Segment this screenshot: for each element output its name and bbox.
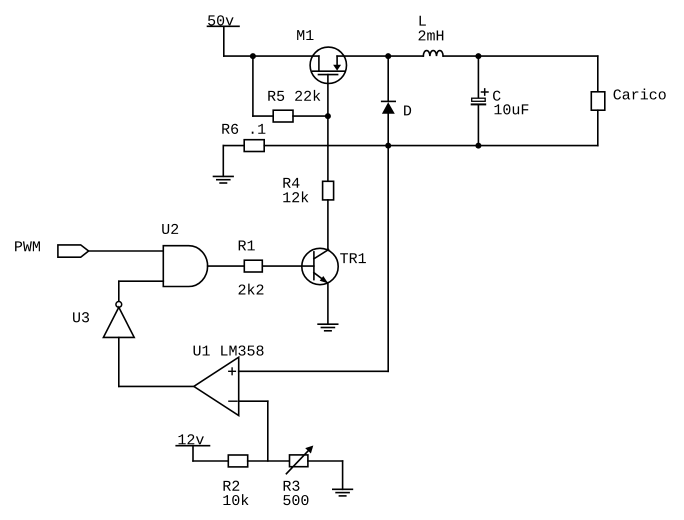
transistor M1 (MOSFET) (310, 47, 346, 83)
label 12v (178, 434, 203, 444)
node dot diode bottom (385, 143, 391, 149)
op-amp U1 (194, 357, 239, 415)
supply 12v symbol (176, 446, 209, 461)
capacitor C (472, 56, 488, 146)
label R6 .1 (222, 124, 265, 134)
supply 50v symbol (208, 26, 240, 56)
wire R4 to TR1 collector (327, 200, 329, 250)
wire bottom bus (R6 to Carico) (264, 145, 598, 147)
wire diode bottom / feedback down (387, 114, 389, 372)
node dot cap bottom (475, 143, 481, 149)
wire opamp plus input to feedback (239, 370, 389, 372)
op-amp plus marking (229, 368, 236, 375)
wire top bus left (50v to M1) (224, 55, 319, 57)
diode D (382, 56, 396, 114)
resistor R3 (variable) (286, 446, 313, 474)
label Carico (614, 89, 666, 100)
gate U3 (inverter) (103, 302, 134, 338)
wire R5 to gate node (293, 115, 328, 117)
wire R2 to R3 (248, 460, 290, 462)
wire M1 gate down through R5 node to R4 (327, 75, 329, 182)
label L 2mH (420, 16, 426, 26)
label R5 22k (268, 90, 320, 101)
resistor R5 (273, 110, 293, 122)
label PWM (15, 241, 40, 251)
node dot 50v/R5 branch (250, 53, 256, 59)
node dot diode top (385, 53, 391, 59)
wire R1 to TR1 base (262, 265, 314, 267)
label U3 (73, 312, 89, 322)
label U1 LM358 (194, 345, 264, 355)
node dot gate/R5 (325, 113, 331, 119)
wire TR1 emitter to ground (327, 283, 329, 324)
wire PWM to U2 (89, 250, 164, 252)
wire opamp minus input down (239, 401, 268, 461)
wire top bus M1 to inductor (337, 55, 423, 57)
wire R6 left to ground (223, 146, 244, 177)
label 50v (208, 15, 234, 25)
label R4 12k (283, 178, 299, 188)
ground under R3 (333, 489, 353, 496)
label TR1 (340, 253, 366, 263)
wire 12v to R2 (193, 460, 228, 462)
ground under TR1 (318, 324, 338, 331)
wire U3 to opamp output (119, 337, 194, 386)
label R2 10k (223, 481, 239, 491)
label R3 500 (284, 481, 300, 491)
input flag PWM (58, 245, 89, 257)
wire U2 out to R1 (208, 265, 245, 267)
label M1 (297, 30, 313, 40)
node dot cap top (475, 53, 481, 59)
wire R3 to ground (308, 461, 343, 489)
label C 10uF (493, 91, 501, 101)
resistor Carico (load) (591, 56, 605, 146)
resistor R1 (244, 260, 262, 272)
gate U2 (AND) (163, 246, 207, 287)
label R1 2k2 (239, 241, 255, 251)
transistor TR1 (302, 248, 338, 284)
resistor R4 (323, 181, 334, 200)
wire 50v branch down to R5 (253, 56, 273, 116)
wire top bus inductor to Carico (443, 55, 598, 57)
op-amp minus marking (229, 400, 237, 402)
wire U2 lower input (119, 281, 164, 301)
label U2 (162, 224, 178, 234)
ground under R6 (214, 176, 234, 183)
resistor R6 (244, 140, 264, 152)
inductor L (423, 51, 443, 57)
resistor R2 (228, 455, 247, 467)
label D (404, 106, 411, 116)
